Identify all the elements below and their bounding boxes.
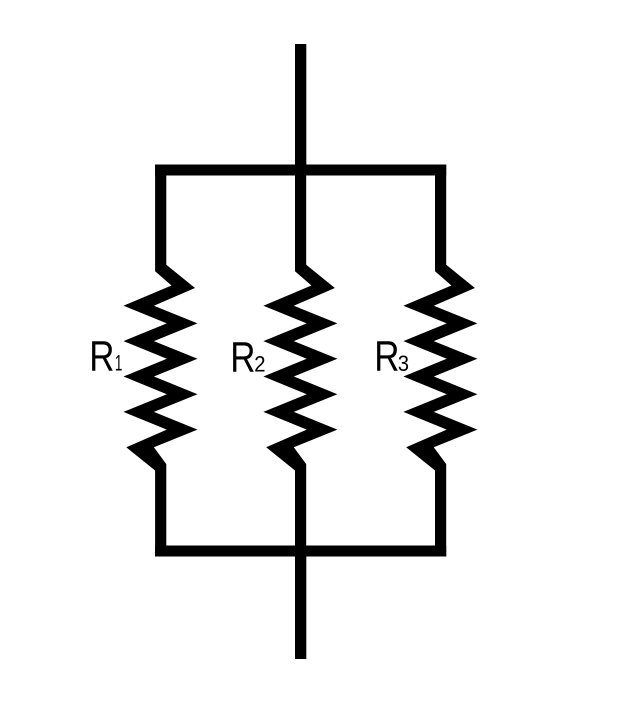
svg-text:R: R [89,333,114,380]
resistor R3 [403,165,477,557]
svg-text:R: R [230,334,255,381]
wire: bottom supply lead [295,546,306,660]
wire: top bus [155,165,446,176]
label R1 [89,333,122,380]
svg-text:2: 2 [254,353,265,377]
resistor R2 [263,44,337,659]
svg-text:1: 1 [115,351,123,375]
svg-text:R: R [374,333,399,380]
resistor R1 [124,165,198,557]
label R3 [374,333,409,380]
svg-text:3: 3 [398,352,409,376]
wire: bottom bus [155,546,446,557]
wire: top supply lead [295,44,306,176]
label R2 [230,334,265,381]
